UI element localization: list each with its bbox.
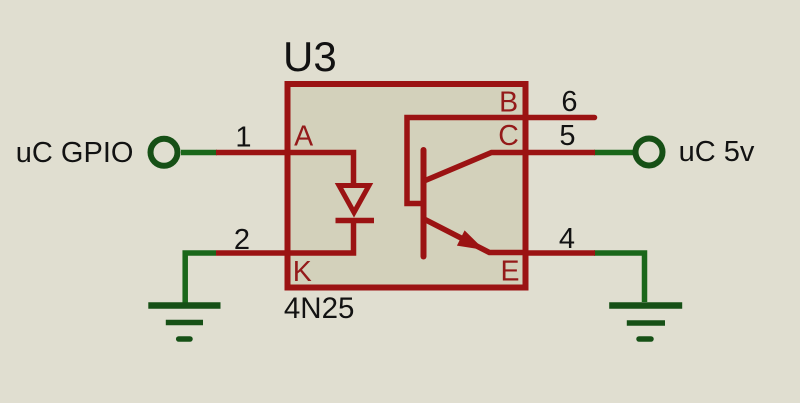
terminal uC GPIO	[151, 139, 178, 166]
pin 5 stub	[524, 150, 595, 156]
pin 2 stub	[216, 250, 288, 256]
svg-text:E: E	[500, 255, 519, 287]
LED anode wire inside body	[288, 153, 354, 187]
svg-text:4N25: 4N25	[284, 292, 355, 325]
wire net uC GPIO to pin 1	[181, 150, 217, 156]
svg-text:uC 5v: uC 5v	[679, 136, 755, 168]
LED cathode bar	[336, 218, 375, 224]
phototransistor collector	[424, 153, 524, 182]
wire pin 2 to ground	[185, 253, 216, 304]
emitter arrow	[457, 230, 485, 250]
svg-text:2: 2	[234, 224, 250, 256]
optocoupler U3 body	[288, 84, 526, 288]
terminal uC 5v	[636, 139, 663, 166]
wire pin 5 to uC 5v	[594, 150, 633, 156]
svg-text:1: 1	[235, 121, 251, 153]
svg-text:U3: U3	[283, 33, 337, 80]
svg-text:B: B	[499, 86, 518, 118]
svg-text:C: C	[498, 120, 519, 152]
svg-text:uC GPIO: uC GPIO	[16, 137, 134, 169]
pin 6 stub	[524, 115, 595, 121]
phototransistor base wire from pin B	[407, 118, 524, 204]
svg-text:4: 4	[559, 223, 575, 255]
wire pin 4 to ground	[594, 253, 645, 302]
ground left	[148, 306, 220, 340]
pin 1 stub	[216, 150, 288, 156]
phototransistor emitter	[424, 219, 524, 253]
svg-text:6: 6	[561, 86, 577, 118]
pin 4 stub	[524, 250, 595, 256]
LED cathode wire to pin K	[288, 219, 354, 253]
svg-text:K: K	[293, 256, 312, 288]
ground right	[609, 306, 682, 340]
svg-text:5: 5	[559, 120, 575, 152]
phototransistor base bar	[421, 150, 427, 257]
LED triangle	[339, 186, 369, 213]
svg-text:A: A	[294, 120, 313, 152]
